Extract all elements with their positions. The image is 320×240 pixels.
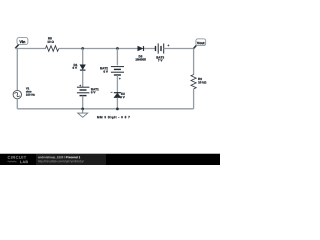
- wire BAT1 to bottom rail: [82, 96, 84, 109]
- footer line 2: [38, 160, 83, 163]
- wire top-left: [15, 48, 45, 50]
- wire BAT2 to D2: [116, 75, 118, 92]
- node junction top-left dot: [81, 47, 84, 50]
- wire branch BAT2 top: [116, 49, 118, 66]
- junction dot bottom-left: [81, 108, 84, 111]
- wire right vertical lower: [193, 89, 195, 109]
- footer text zone: [36, 154, 106, 165]
- resistor R2: [191, 75, 206, 89]
- ground: [78, 109, 88, 118]
- wire D1 to BAT1: [82, 71, 84, 88]
- wire left vertical lower: [16, 99, 18, 109]
- node junction top-right dot: [116, 47, 119, 50]
- voltage source V1: [13, 87, 35, 98]
- wire left vertical upper: [16, 49, 18, 91]
- battery BAT2: [100, 67, 124, 80]
- battery BAT1: [77, 85, 99, 96]
- wire right vertical upper: [193, 49, 195, 75]
- battery BAT3: [156, 43, 170, 61]
- wire bottom rail: [17, 108, 193, 110]
- junction dot bottom-right: [116, 108, 119, 111]
- wire top-middle: [59, 48, 138, 50]
- wire D2 to bottom rail: [116, 98, 118, 109]
- footer bar: [0, 152, 220, 155]
- wire branch D1 top: [82, 49, 84, 65]
- diode D1: [73, 64, 86, 70]
- net label Vout: [194, 39, 206, 49]
- resistor R5: [46, 37, 59, 51]
- diode D2: [111, 92, 125, 98]
- net label Vin: [15, 38, 28, 49]
- wire between D3 and BAT3: [144, 48, 155, 50]
- footer logo CIRCUIT LAB: [8, 156, 28, 163]
- wire BAT3 to top-right corner: [164, 48, 194, 50]
- annotation MM 3 Digit: [97, 116, 130, 119]
- footer line 1: [38, 156, 80, 159]
- diode D3: [136, 46, 146, 60]
